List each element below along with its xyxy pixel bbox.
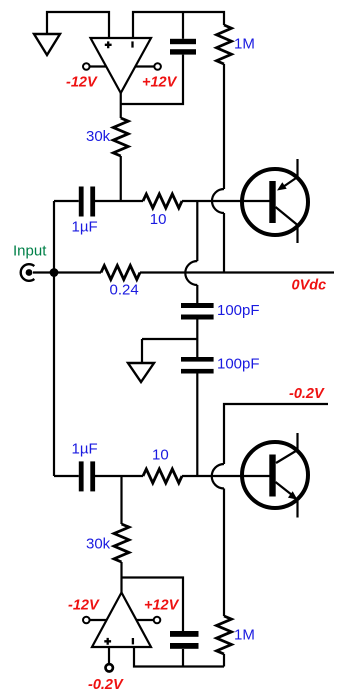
svg-text:-0.2V: -0.2V bbox=[289, 386, 325, 402]
svg-text:+12V: +12V bbox=[144, 598, 180, 614]
svg-text:Input: Input bbox=[13, 243, 47, 260]
svg-text:0Vdc: 0Vdc bbox=[292, 278, 327, 294]
svg-text:1M: 1M bbox=[234, 627, 255, 644]
svg-text:1M: 1M bbox=[234, 36, 255, 53]
svg-text:100pF: 100pF bbox=[217, 302, 260, 319]
svg-text:1µF: 1µF bbox=[72, 441, 98, 458]
svg-text:100pF: 100pF bbox=[217, 356, 260, 373]
svg-text:1µF: 1µF bbox=[72, 219, 98, 236]
svg-text:+12V: +12V bbox=[142, 75, 178, 91]
svg-text:10: 10 bbox=[152, 447, 169, 464]
svg-text:30k: 30k bbox=[86, 536, 111, 553]
svg-text:-0.2V: -0.2V bbox=[88, 677, 124, 693]
svg-text:10: 10 bbox=[150, 211, 167, 228]
svg-text:30k: 30k bbox=[86, 128, 111, 145]
svg-text:-12V: -12V bbox=[66, 75, 98, 91]
svg-text:-12V: -12V bbox=[68, 598, 100, 614]
svg-text:0.24: 0.24 bbox=[110, 282, 139, 299]
